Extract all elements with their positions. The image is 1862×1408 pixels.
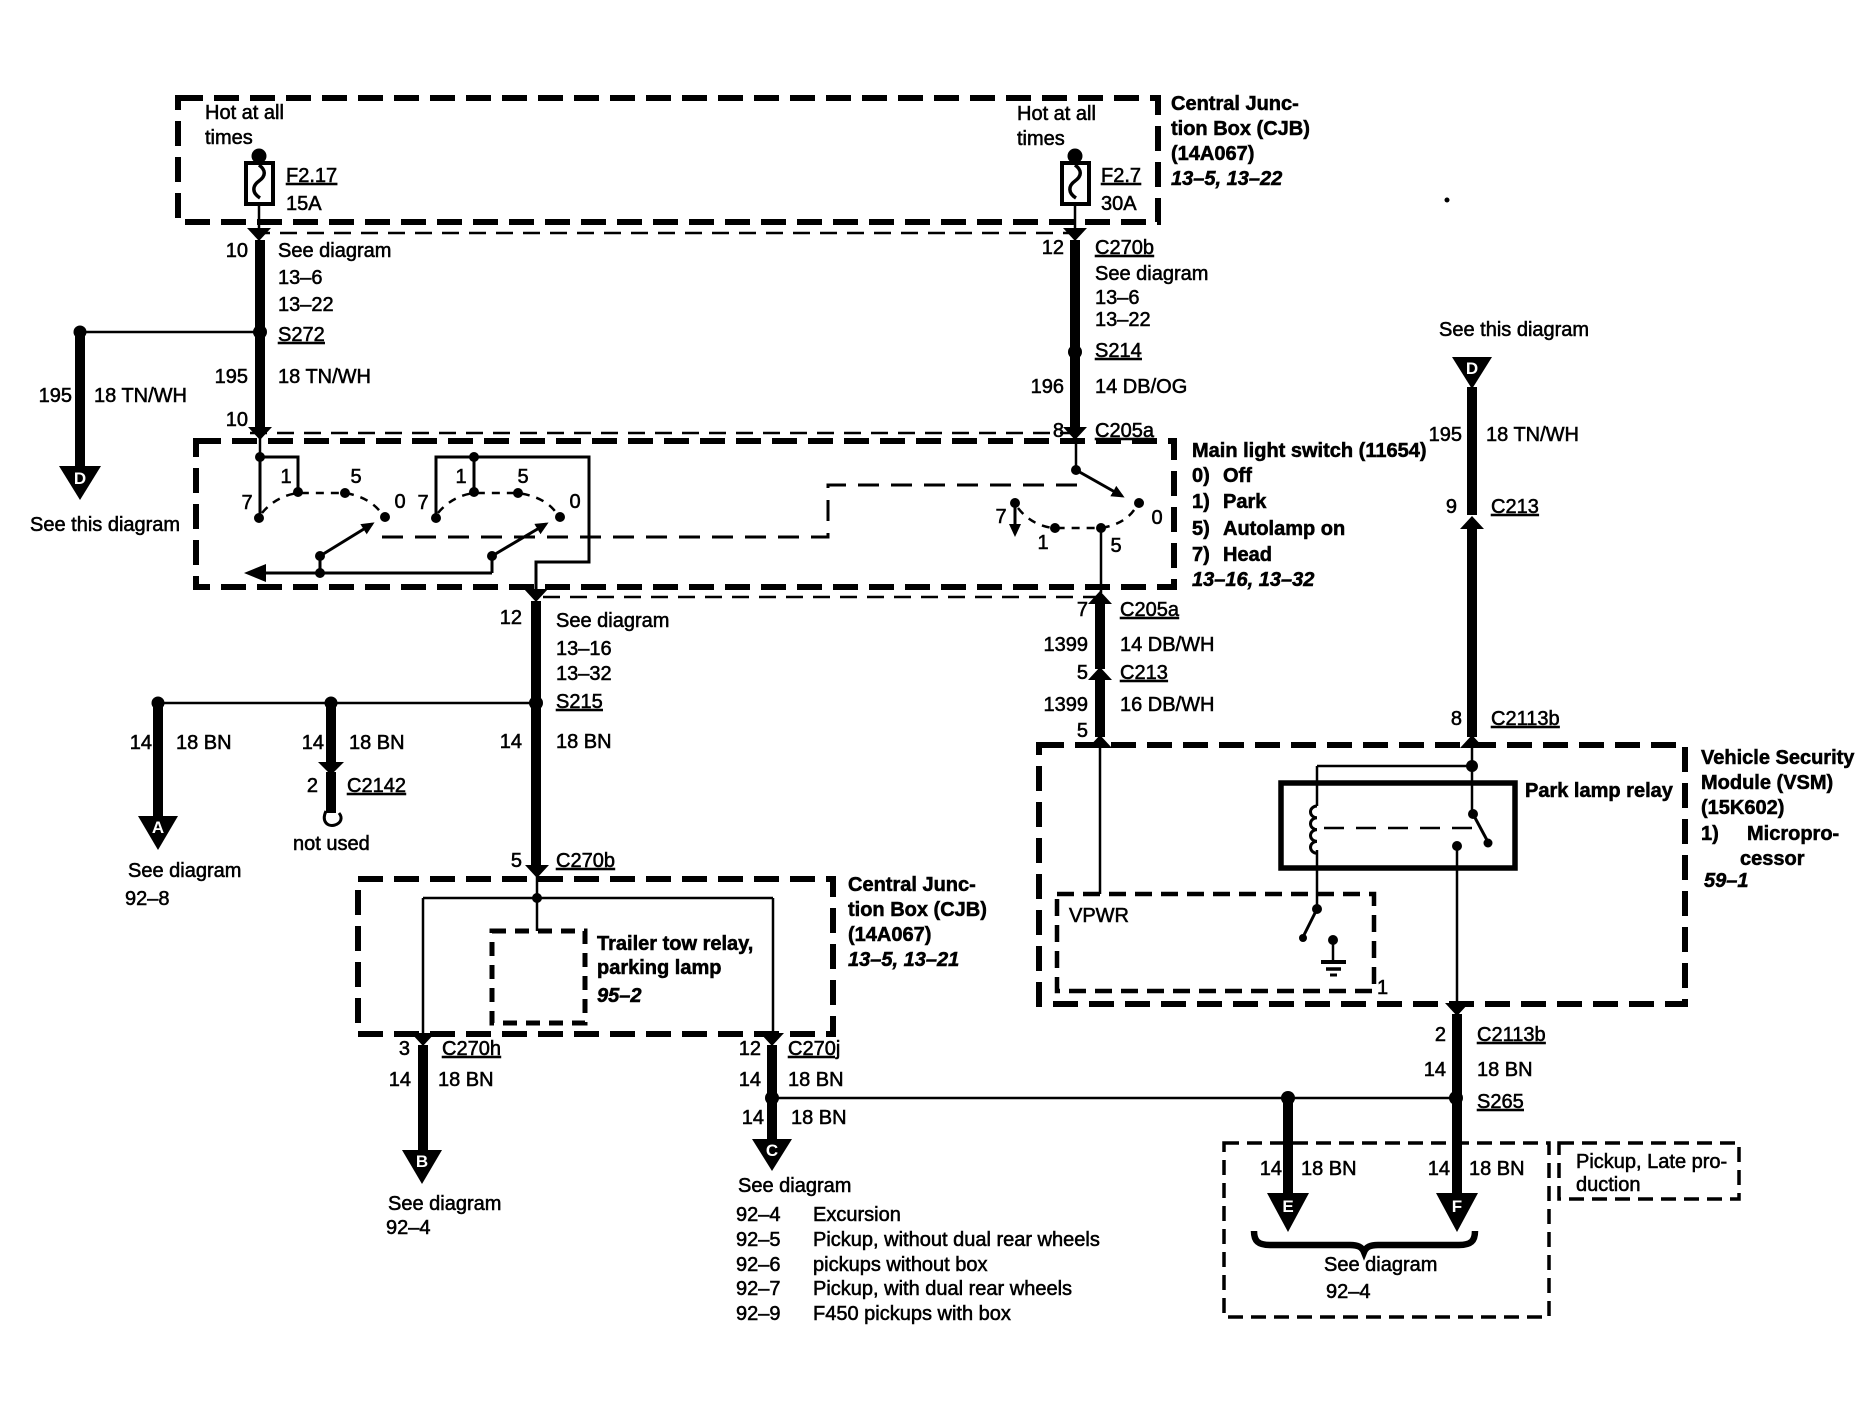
svg-text:18 TN/WH: 18 TN/WH (278, 366, 371, 388)
svg-text:C2113b: C2113b (1491, 708, 1560, 730)
svg-text:12: 12 (739, 1038, 761, 1060)
svg-text:5: 5 (1110, 535, 1121, 557)
svg-text:S215: S215 (556, 691, 603, 713)
svg-text:D: D (1466, 359, 1478, 378)
svg-text:9: 9 (1446, 496, 1457, 518)
svg-text:F2.7: F2.7 (1101, 165, 1141, 187)
svg-text:Central Junc-: Central Junc- (848, 874, 976, 896)
svg-text:Micropro-: Micropro- (1747, 823, 1839, 845)
svg-text:times: times (205, 127, 253, 149)
svg-text:(15K602): (15K602) (1701, 797, 1784, 819)
svg-text:C270h: C270h (442, 1038, 501, 1060)
svg-text:cessor: cessor (1740, 848, 1805, 870)
svg-text:14: 14 (389, 1069, 411, 1091)
svg-text:Module (VSM): Module (VSM) (1701, 772, 1833, 794)
svg-text:Pickup, Late pro-: Pickup, Late pro- (1576, 1151, 1727, 1173)
svg-text:S265: S265 (1477, 1091, 1524, 1113)
svg-text:92–8: 92–8 (125, 888, 170, 910)
svg-text:See diagram: See diagram (388, 1193, 501, 1215)
svg-text:195: 195 (39, 385, 72, 407)
svg-text:18 BN: 18 BN (556, 731, 612, 753)
svg-text:S272: S272 (278, 324, 325, 346)
svg-text:times: times (1017, 128, 1065, 150)
svg-text:0: 0 (1151, 507, 1162, 529)
svg-text:C270j: C270j (788, 1038, 840, 1060)
svg-text:92–7: 92–7 (736, 1278, 781, 1300)
svg-text:C213: C213 (1120, 662, 1168, 684)
svg-text:14: 14 (1260, 1158, 1282, 1180)
svg-text:18 BN: 18 BN (438, 1069, 494, 1091)
svg-text:18 BN: 18 BN (1301, 1158, 1357, 1180)
svg-text:18 BN: 18 BN (788, 1069, 844, 1091)
svg-text:13–16, 13–32: 13–16, 13–32 (1192, 569, 1314, 591)
svg-text:18 BN: 18 BN (1469, 1158, 1525, 1180)
svg-text:14: 14 (739, 1069, 761, 1091)
svg-text:1: 1 (280, 466, 291, 488)
svg-text:C2142: C2142 (347, 775, 406, 797)
svg-text:See this diagram: See this diagram (1439, 319, 1589, 341)
svg-text:195: 195 (215, 366, 248, 388)
svg-text:95–2: 95–2 (597, 985, 642, 1007)
svg-text:8: 8 (1053, 420, 1064, 442)
svg-text:18 TN/WH: 18 TN/WH (1486, 424, 1579, 446)
svg-text:13–6: 13–6 (1095, 287, 1140, 309)
svg-text:18 BN: 18 BN (791, 1107, 847, 1129)
svg-text:18 BN: 18 BN (349, 732, 405, 754)
svg-text:5: 5 (1077, 720, 1088, 742)
svg-text:92–4: 92–4 (1326, 1281, 1371, 1303)
svg-text:0: 0 (394, 491, 405, 513)
svg-text:Park lamp relay: Park lamp relay (1525, 780, 1674, 802)
svg-text:S214: S214 (1095, 340, 1142, 362)
svg-text:14: 14 (130, 732, 152, 754)
svg-text:F: F (1452, 1197, 1462, 1216)
svg-text:59–1: 59–1 (1704, 870, 1749, 892)
svg-text:pickups without box: pickups without box (813, 1254, 988, 1276)
svg-text:12: 12 (1042, 237, 1064, 259)
svg-text:C270b: C270b (1095, 237, 1154, 259)
svg-text:7: 7 (241, 492, 252, 514)
svg-text:0: 0 (569, 491, 580, 513)
svg-text:14: 14 (1424, 1059, 1446, 1081)
svg-text:C: C (766, 1141, 778, 1160)
svg-text:Excursion: Excursion (813, 1204, 901, 1226)
svg-text:E: E (1282, 1197, 1293, 1216)
svg-text:duction: duction (1576, 1174, 1641, 1196)
svg-text:1399: 1399 (1044, 634, 1089, 656)
svg-text:See diagram: See diagram (1095, 263, 1208, 285)
svg-text:13–5, 13–22: 13–5, 13–22 (1171, 168, 1282, 190)
svg-text:Vehicle Security: Vehicle Security (1701, 747, 1855, 769)
svg-text:18 BN: 18 BN (1477, 1059, 1533, 1081)
svg-text:5: 5 (511, 850, 522, 872)
svg-text:15A: 15A (286, 193, 322, 215)
svg-text:C2113b: C2113b (1477, 1024, 1546, 1046)
svg-text:18 TN/WH: 18 TN/WH (94, 385, 187, 407)
svg-text:C205a: C205a (1120, 599, 1180, 621)
svg-text:30A: 30A (1101, 193, 1137, 215)
svg-text:5: 5 (517, 466, 528, 488)
svg-text:Off: Off (1223, 465, 1252, 487)
svg-text:18 BN: 18 BN (176, 732, 232, 754)
svg-text:92–6: 92–6 (736, 1254, 781, 1276)
svg-text:7: 7 (995, 506, 1006, 528)
svg-text:13–6: 13–6 (278, 267, 323, 289)
svg-text:13–22: 13–22 (1095, 309, 1151, 331)
svg-text:1: 1 (1037, 532, 1048, 554)
svg-text:D: D (74, 469, 86, 488)
svg-text:5: 5 (350, 466, 361, 488)
svg-text:3: 3 (399, 1038, 410, 1060)
svg-text:(14A067): (14A067) (1171, 143, 1254, 165)
svg-text:Pickup, with dual rear wheels: Pickup, with dual rear wheels (813, 1278, 1072, 1300)
svg-text:7: 7 (417, 492, 428, 514)
svg-text:1: 1 (1377, 977, 1388, 999)
svg-text:196: 196 (1031, 376, 1064, 398)
svg-text:14: 14 (742, 1107, 764, 1129)
svg-text:5): 5) (1192, 518, 1210, 540)
svg-text:Central Junc-: Central Junc- (1171, 93, 1299, 115)
svg-text:Pickup, without dual rear whee: Pickup, without dual rear wheels (813, 1229, 1100, 1251)
svg-text:2: 2 (307, 775, 318, 797)
svg-text:5: 5 (1077, 662, 1088, 684)
svg-text:13–5, 13–21: 13–5, 13–21 (848, 949, 959, 971)
svg-text:1): 1) (1701, 823, 1719, 845)
svg-text:2: 2 (1435, 1024, 1446, 1046)
svg-text:14: 14 (302, 732, 324, 754)
svg-text:See this diagram: See this diagram (30, 514, 180, 536)
svg-text:See diagram: See diagram (128, 860, 241, 882)
svg-text:parking lamp: parking lamp (597, 957, 721, 979)
svg-text:16 DB/WH: 16 DB/WH (1120, 694, 1214, 716)
svg-text:Autolamp on: Autolamp on (1223, 518, 1345, 540)
svg-text:See diagram: See diagram (738, 1175, 851, 1197)
svg-text:Hot at all: Hot at all (1017, 103, 1096, 125)
svg-text:1): 1) (1192, 491, 1210, 513)
svg-text:13–32: 13–32 (556, 663, 612, 685)
svg-text:14 DB/WH: 14 DB/WH (1120, 634, 1214, 656)
svg-text:not used: not used (293, 833, 370, 855)
svg-text:See diagram: See diagram (556, 610, 669, 632)
svg-text:92–9: 92–9 (736, 1303, 781, 1325)
svg-text:A: A (152, 818, 164, 837)
svg-text:13–22: 13–22 (278, 294, 334, 316)
svg-text:B: B (416, 1152, 428, 1171)
svg-text:C270b: C270b (556, 850, 615, 872)
svg-text:Trailer tow relay,: Trailer tow relay, (597, 933, 753, 955)
svg-text:8: 8 (1451, 708, 1462, 730)
svg-text:1: 1 (455, 466, 466, 488)
svg-text:tion Box (CJB): tion Box (CJB) (848, 899, 987, 921)
svg-text:Hot at all: Hot at all (205, 102, 284, 124)
svg-text:92–4: 92–4 (386, 1217, 431, 1239)
svg-text:14: 14 (500, 731, 522, 753)
svg-text:VPWR: VPWR (1069, 905, 1129, 927)
svg-text:14 DB/OG: 14 DB/OG (1095, 376, 1187, 398)
svg-text:See diagram: See diagram (1324, 1254, 1437, 1276)
svg-text:12: 12 (500, 607, 522, 629)
svg-text:7: 7 (1077, 599, 1088, 621)
svg-text:F2.17: F2.17 (286, 165, 337, 187)
svg-text:92–5: 92–5 (736, 1229, 781, 1251)
svg-text:C205a: C205a (1095, 420, 1155, 442)
svg-text:(14A067): (14A067) (848, 924, 931, 946)
svg-text:Park: Park (1223, 491, 1267, 513)
svg-text:F450 pickups with box: F450 pickups with box (813, 1303, 1011, 1325)
svg-text:0): 0) (1192, 465, 1210, 487)
svg-text:Head: Head (1223, 544, 1272, 566)
svg-text:10: 10 (226, 409, 248, 431)
svg-text:195: 195 (1429, 424, 1462, 446)
svg-text:7): 7) (1192, 544, 1210, 566)
svg-text:tion Box (CJB): tion Box (CJB) (1171, 118, 1310, 140)
svg-text:Main light switch (11654): Main light switch (11654) (1192, 440, 1427, 462)
svg-text:14: 14 (1428, 1158, 1450, 1180)
svg-text:C213: C213 (1491, 496, 1539, 518)
svg-text:92–4: 92–4 (736, 1204, 781, 1226)
svg-text:13–16: 13–16 (556, 638, 612, 660)
svg-text:10: 10 (226, 240, 248, 262)
svg-text:See diagram: See diagram (278, 240, 391, 262)
svg-text:1399: 1399 (1044, 694, 1089, 716)
